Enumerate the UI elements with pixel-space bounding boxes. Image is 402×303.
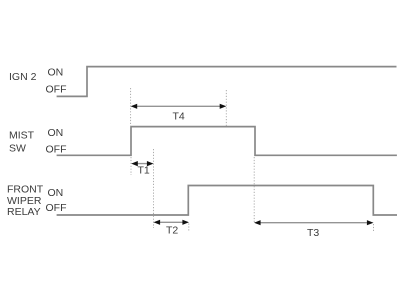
node T1 left extension line xyxy=(130,157,132,175)
svg-text:ON: ON xyxy=(48,127,64,139)
svg-text:FRONT: FRONT xyxy=(7,184,44,196)
svg-text:OFF: OFF xyxy=(46,84,67,96)
svg-text:ON: ON xyxy=(48,67,64,79)
svg-text:ON: ON xyxy=(48,187,64,199)
dimension T1 xyxy=(131,161,153,166)
wire IGN2 waveform xyxy=(57,67,397,97)
svg-text:T4: T4 xyxy=(173,111,185,123)
svg-text:T1: T1 xyxy=(138,165,150,177)
node T4 left extension line xyxy=(130,88,132,127)
svg-text:WIPER: WIPER xyxy=(7,195,42,207)
wire MIST SW waveform xyxy=(57,127,397,156)
svg-text:OFF: OFF xyxy=(46,144,67,156)
svg-text:T3: T3 xyxy=(307,227,319,239)
wire FRONT WIPER RELAY waveform xyxy=(57,186,397,216)
svg-text:RELAY: RELAY xyxy=(7,206,41,218)
node T3 right extension line xyxy=(373,224,375,232)
dimension T4 xyxy=(131,104,227,109)
svg-text:SW: SW xyxy=(9,143,26,155)
dimension T2 xyxy=(154,220,190,225)
node T1/T2 shared extension line xyxy=(153,149,155,228)
node T2 right extension line xyxy=(188,224,190,233)
svg-text:T2: T2 xyxy=(166,225,178,237)
svg-text:MIST: MIST xyxy=(9,130,35,142)
node T4 right extension line xyxy=(225,90,227,127)
svg-text:IGN 2: IGN 2 xyxy=(9,71,37,83)
node T3 left extension line xyxy=(253,157,255,223)
dimension T3 xyxy=(254,220,374,225)
svg-text:OFF: OFF xyxy=(46,202,67,214)
